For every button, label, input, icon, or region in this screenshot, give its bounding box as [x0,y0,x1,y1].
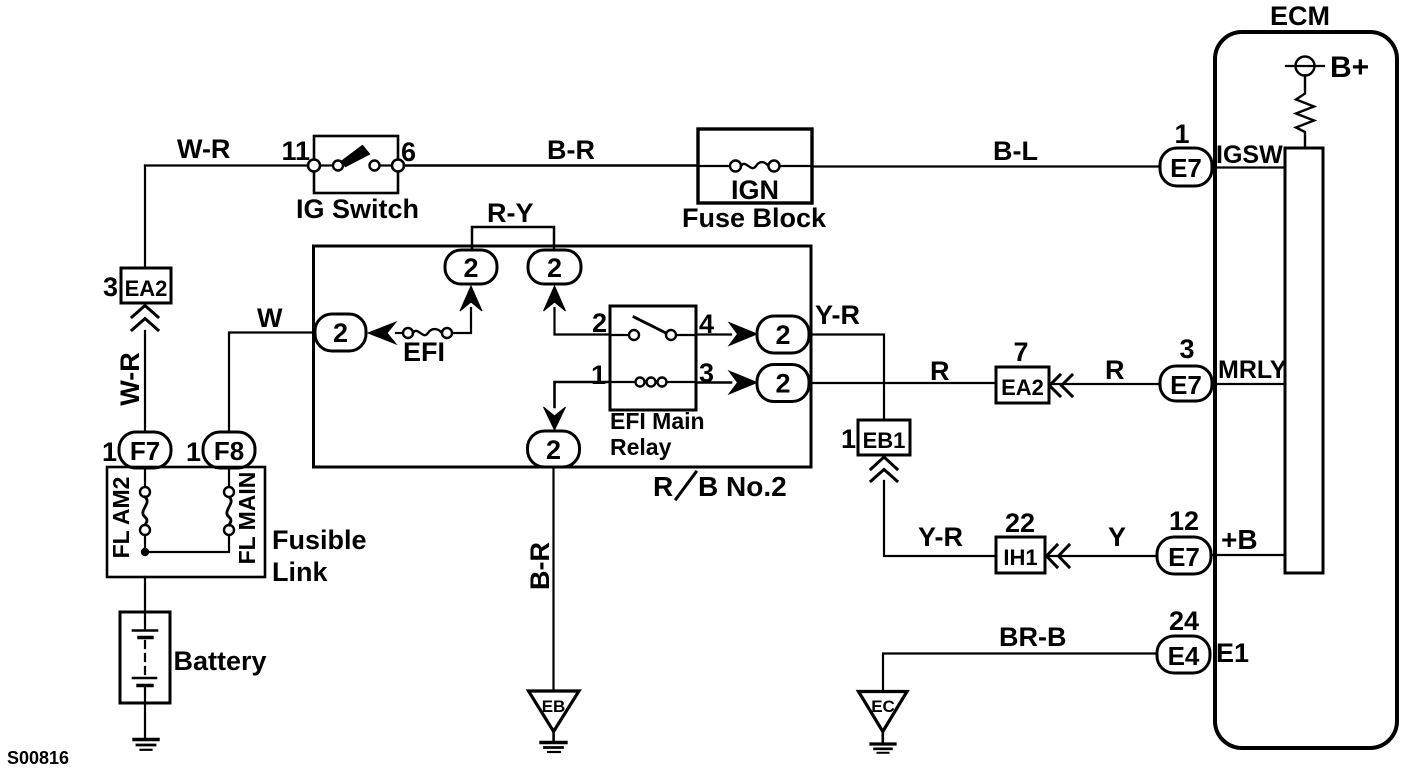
battery box [120,612,170,703]
svg-text:IH1: IH1 [1003,545,1037,570]
svg-text:F8: F8 [214,436,244,466]
svg-text:B-L: B-L [993,136,1038,166]
black up arrow under oval [460,286,482,311]
ECM outline [1215,32,1397,748]
connector 2 oval left (W input) [315,314,366,351]
connector E4 pin 24 oval [1157,636,1210,673]
wire +B [1211,554,1285,556]
ground triangle EC [859,692,908,732]
IGN fuse wire right [780,165,813,167]
svg-text:EA2: EA2 [1001,375,1044,400]
battery ground bars [134,738,158,741]
svg-text:R: R [653,471,673,502]
svg-text:7: 7 [1013,337,1028,367]
fusible link FL AM2 lead top [144,468,146,487]
connector F7 oval [119,432,171,468]
svg-text:2: 2 [775,320,790,350]
svg-text:E7: E7 [1170,370,1202,400]
svg-text:3: 3 [1179,334,1194,364]
wire W from F8 to oval [229,333,315,433]
fusible link box [107,467,265,577]
wire junction to FL MAIN [145,535,229,552]
IG switch terminal 11 circle [308,160,320,172]
svg-text:W-R: W-R [115,352,145,405]
svg-text:2: 2 [592,308,607,338]
black left arrow [368,322,396,344]
IG switch terminal 6 circle [392,160,404,172]
EB ground bars [541,741,566,744]
FL AM2 circle top [140,487,150,497]
svg-text:IGSW: IGSW [1216,141,1283,169]
FL MAIN circle top [224,487,234,497]
svg-text:W-R: W-R [177,134,230,164]
connector E7 pin 1 oval [1160,148,1212,186]
wire relay pin4 out [696,333,731,335]
svg-text:2: 2 [775,369,790,399]
svg-text:Fusible: Fusible [272,525,367,555]
battery plate short top [139,636,152,639]
battery plate short bottom [138,684,152,687]
svg-text:E7: E7 [1168,542,1200,572]
svg-text:1: 1 [591,360,606,390]
svg-text:Fuse Block: Fuse Block [682,203,827,233]
R/B No.2 box [314,246,812,467]
svg-text:FL MAIN: FL MAIN [234,472,260,565]
IGN fuse circle right [769,161,780,172]
svg-text:1: 1 [841,424,856,454]
svg-text:EFI Main: EFI Main [610,408,705,434]
black right arrow pin3 [729,371,757,394]
wire B-R [404,164,698,167]
svg-text:EA2: EA2 [125,276,168,301]
connector EA2 box right [996,367,1049,403]
B+ terminal circle [1296,57,1315,76]
relay coil loops [636,378,645,387]
svg-text:6: 6 [401,137,416,167]
wire MRLY [1212,383,1285,385]
EC ground bars [871,742,895,745]
IG switch box [314,136,398,193]
R-Y jumper bracket [472,227,554,250]
IG switch contact circle right [370,161,380,171]
svg-text:FL AM2: FL AM2 [108,477,134,559]
connector 2 oval top-right [528,250,581,284]
svg-text:3: 3 [103,272,118,302]
svg-text:EFI: EFI [403,337,445,367]
svg-text:Y: Y [1108,522,1126,552]
svg-text:Link: Link [272,557,328,587]
svg-text:+B: +B [1221,524,1258,555]
relay switch wire right [676,334,696,336]
svg-text:2: 2 [463,253,478,283]
junction dot [141,548,149,556]
wire W-R vertical drop to EA2 [144,166,146,269]
ground triangle EB [529,691,580,732]
relay switch wire left [610,334,629,336]
svg-text:Y-R: Y-R [918,522,963,552]
wire to EFI fuse [396,332,403,334]
svg-text:12: 12 [1169,506,1199,536]
black up arrow under oval [544,286,566,311]
svg-text:1: 1 [102,437,117,467]
svg-text:B-R: B-R [525,542,555,590]
svg-text:Relay: Relay [610,434,672,460]
svg-text:2: 2 [333,318,348,348]
wire Y-R to IH1 [884,481,996,556]
black down arrow [544,407,566,430]
svg-text:Y-R: Y-R [815,300,860,330]
svg-text:BR-B: BR-B [999,622,1067,652]
wire relay pin3 out [696,381,731,384]
FL MAIN circle bottom [224,525,234,535]
IGN fuse circle left [730,161,741,172]
battery dashed middle [144,641,146,675]
connector EB1 box [858,420,910,455]
wire from right top oval down to relay pin 2 [555,308,611,335]
connector E7 pin 12 oval [1157,537,1211,574]
svg-text:EC: EC [871,697,895,716]
svg-text:1: 1 [1174,119,1189,149]
svg-text:S00816: S00816 [7,748,69,768]
svg-text:E1: E1 [1216,638,1249,668]
connector 2 oval top-left [445,250,497,284]
connector F8 oval [203,432,255,468]
EFI fuse circle right [442,328,452,338]
EFI main relay box [610,306,696,410]
svg-text:2: 2 [546,435,561,465]
svg-text:IGN: IGN [731,175,779,205]
EB ground stem [552,732,555,742]
black right arrow pin4 [729,323,757,346]
wire W-R horizontal top [145,164,314,166]
FL MAIN lead top [228,468,230,487]
wire relay pin1 to down arrow [555,382,611,407]
svg-text:24: 24 [1169,606,1199,636]
relay coil wire [610,381,696,383]
svg-text:B+: B+ [1330,51,1369,84]
connector IH1 box [996,537,1045,573]
svg-text:IG Switch: IG Switch [296,194,419,224]
relay switch contact right [666,330,676,340]
EFI fuse circle left [403,328,413,338]
wire R to E7 MRLY [1049,383,1160,385]
wire Y-R from pin4 oval to EB1 [809,335,884,421]
svg-text:W: W [257,303,283,333]
wire B-L [812,165,1160,167]
svg-text:B-R: B-R [547,135,595,165]
EA2 left chevrons [132,306,158,318]
ECM internal bus bar rectangle [1285,148,1323,573]
wire IGSW [1212,166,1285,168]
wire EFI fuse to up arrow [452,308,471,333]
label R/B No.2 [653,471,787,502]
wire R from pin3 oval to EA2 [809,382,996,384]
battery plate long top [133,629,157,632]
IG switch lever [341,146,370,167]
svg-text:1: 1 [186,437,201,467]
svg-text:MRLY: MRLY [1218,356,1287,384]
svg-text:2: 2 [547,253,562,283]
svg-text:R-Y: R-Y [487,198,534,228]
resistor inside ECM [1296,76,1314,149]
EC ground stem [881,732,884,743]
wire fusible link to battery [144,577,146,630]
svg-text:E7: E7 [1170,153,1202,183]
FL AM2 lead bottom [144,535,146,552]
IGN fuse wire left [698,165,730,167]
EB1 continuation chevrons [871,457,897,469]
connector 2 oval bottom [528,431,580,467]
FL MAIN element squiggle [227,497,231,525]
battery lead bottom [144,686,146,739]
FL AM2 element squiggle [143,497,147,525]
svg-text:F7: F7 [130,436,160,466]
connector E7 pin 3 oval [1160,366,1212,401]
svg-text:Battery: Battery [174,646,267,676]
connector 2 oval pin3 [757,365,809,402]
connector 2 oval pin4 [757,316,809,353]
svg-text:11: 11 [281,136,310,166]
FL AM2 circle bottom [140,525,150,535]
wire Y to E7 +B [1045,555,1157,557]
IG switch inner wire right [380,164,393,166]
EFI fuse element squiggle [413,329,442,335]
IG switch contact circle left [333,161,343,171]
B+ terminal cross line [1286,65,1324,67]
IG switch inner wire left [320,164,333,166]
battery plate long bottom [133,677,156,680]
svg-text:B No.2: B No.2 [698,471,787,502]
connector EA2 box left [121,268,171,303]
svg-text:EB1: EB1 [863,428,906,453]
R/B slash [676,472,696,499]
EA2 chevrons [1050,375,1061,396]
relay switch lever [634,317,668,334]
svg-text:E4: E4 [1168,641,1200,671]
svg-text:R: R [1105,355,1125,385]
svg-text:22: 22 [1005,508,1035,538]
wire BR-B [883,654,1157,692]
fuse block box [698,129,812,203]
IH1 chevrons [1047,545,1058,567]
svg-text:R: R [930,356,950,386]
svg-text:EB: EB [542,697,566,716]
svg-text:ECM: ECM [1270,1,1330,31]
wire W-R down to F7 [144,331,146,432]
wire B-R down to EB ground [552,467,554,689]
relay switch contact left [629,330,639,340]
IGN fuse element squiggle [741,162,769,168]
